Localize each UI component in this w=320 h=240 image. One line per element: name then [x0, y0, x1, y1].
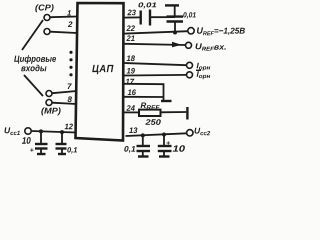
- ground under C6: [159, 155, 170, 157]
- ground right of R1: [186, 107, 188, 120]
- capacitor C6 10uF electrolytic: [158, 135, 172, 156]
- value 250 for R1: [145, 119, 160, 125]
- node terminal I out: [187, 62, 193, 68]
- pin number 24: [126, 105, 134, 111]
- node input terminal 1: [44, 15, 50, 21]
- arrowhead on pin21 wire: [172, 42, 182, 48]
- pin number 22: [126, 25, 134, 31]
- node terminal Ucc2: [187, 130, 193, 136]
- ground under C5: [138, 155, 149, 157]
- node junction C2: [60, 130, 64, 134]
- wire pin17: [124, 84, 164, 97]
- label I inverted out: [197, 71, 211, 79]
- label digital inputs line2: [21, 65, 46, 72]
- node terminal Uref out: [188, 28, 194, 34]
- pin number 17: [126, 79, 135, 85]
- pin number 16: [128, 89, 136, 95]
- wire from R1 to ground: [161, 111, 187, 113]
- node input terminal 2: [44, 29, 50, 35]
- polarity plus C6: [167, 141, 171, 145]
- capacitor C3 0,01 series on pin 23: [141, 10, 175, 26]
- value 10 for C6: [173, 145, 185, 151]
- resistor R1 Rref: [139, 110, 161, 116]
- node junction C1: [39, 129, 43, 133]
- label Uref=-1,25V: [197, 27, 245, 35]
- op-amp U1 DAC chip body: [76, 3, 124, 141]
- pin number 8: [68, 96, 72, 102]
- wire pin19 to inverted I output: [124, 74, 186, 77]
- ground for pins 16 17: [161, 97, 172, 101]
- pin number 18: [127, 55, 135, 61]
- label (CP) MSB: [35, 4, 53, 12]
- value 10 for C1: [22, 137, 31, 144]
- pin number 19: [127, 68, 135, 74]
- pin number 21: [126, 35, 134, 41]
- pin number 23: [127, 10, 135, 16]
- label Rref: [141, 103, 160, 110]
- wire pin22 to Uref out terminal: [125, 31, 189, 33]
- wire leader to upper inputs: [22, 20, 43, 50]
- capacitor C2 0.1uF: [56, 132, 67, 153]
- label I out: [197, 63, 211, 71]
- pin number 2: [68, 21, 73, 27]
- wire pin8: [52, 103, 76, 104]
- overbar on inverted I label: [196, 69, 201, 71]
- polarity plus C1: [30, 148, 33, 152]
- ground above C4: [165, 5, 179, 15]
- value 0,1 for C2: [67, 147, 77, 153]
- wire pin1: [50, 16, 77, 19]
- pin number 7: [68, 84, 72, 90]
- label (MP) LSB: [41, 107, 60, 115]
- wire pin23: [124, 16, 140, 18]
- node terminal I inverted out: [187, 72, 193, 78]
- wire pin24: [124, 111, 139, 113]
- node input terminal 7: [46, 91, 52, 97]
- capacitor C4 0,01 bypass on Uref: [167, 17, 184, 33]
- node junction C5: [141, 133, 145, 137]
- capacitor C5 0,1uF: [137, 135, 151, 155]
- label Uref vx: [196, 43, 226, 50]
- value 0,01 for C3: [138, 2, 156, 8]
- wire leader to lower inputs: [24, 75, 43, 96]
- label Ucc2: [195, 128, 211, 136]
- wire pin21 with arrow: [125, 44, 186, 45]
- ground under C1: [37, 153, 46, 155]
- node input terminal 8: [46, 100, 52, 106]
- value 0,01 for C4: [183, 12, 196, 18]
- wire pin16: [124, 96, 164, 98]
- wire pin12: [31, 131, 76, 133]
- node terminal Uref in: [186, 42, 192, 48]
- ground under C2: [58, 153, 66, 155]
- wire pin2: [50, 32, 77, 33]
- chip label ЦАП: [92, 65, 113, 74]
- node junction C6: [162, 133, 166, 137]
- node ellipsis dots pins 3-6: [69, 51, 72, 77]
- pin number 1: [67, 10, 71, 15]
- node terminal Ucc1: [25, 128, 31, 134]
- wire pin18 to I output: [124, 63, 186, 65]
- node junction C4 on pin22 wire: [173, 31, 177, 35]
- wire pin13 to Ucc2: [126, 133, 187, 136]
- pin number 13: [129, 127, 137, 133]
- label digital inputs line1: [14, 55, 56, 63]
- label Ucc1: [5, 127, 20, 135]
- capacitor C1 10uF electrolytic: [35, 131, 48, 153]
- pin number 12: [65, 124, 73, 130]
- value 0,1 for C5: [124, 146, 135, 153]
- wire pin7: [52, 91, 76, 93]
